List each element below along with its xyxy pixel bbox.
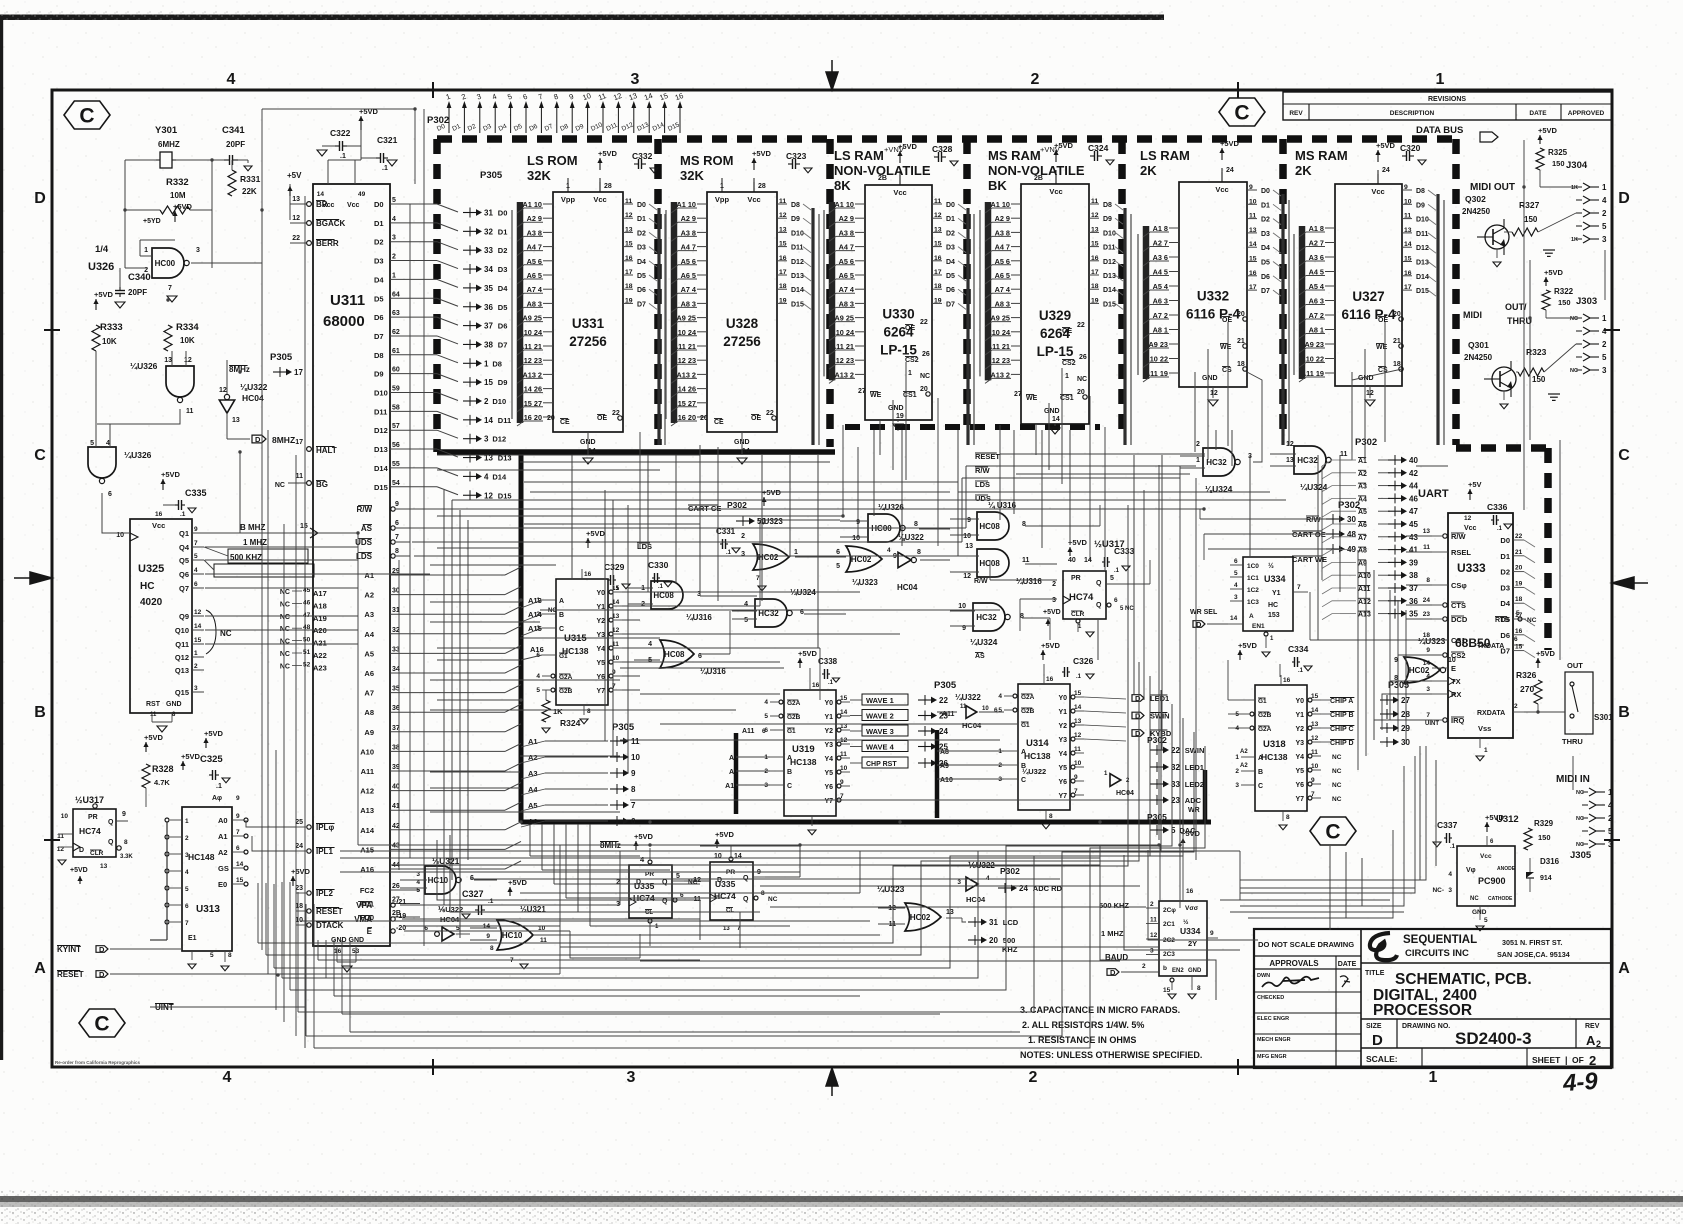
svg-text:HC00: HC00	[155, 259, 176, 268]
svg-text:43: 43	[1409, 533, 1418, 542]
svg-text:10M: 10M	[170, 191, 186, 200]
svg-text:9: 9	[1394, 657, 1398, 664]
svg-text:Vcc: Vcc	[1371, 187, 1384, 196]
svg-text:13: 13	[723, 926, 730, 932]
wire left mid vertical bundle	[443, 490, 445, 905]
data bus lane divider 4	[1118, 139, 1126, 430]
svg-text:2K: 2K	[1140, 163, 1157, 178]
svg-text:D11: D11	[374, 407, 387, 416]
svg-text:SAN JOSE,CA. 95134: SAN JOSE,CA. 95134	[1497, 950, 1570, 959]
svg-text:6: 6	[236, 845, 240, 852]
svg-text:9: 9	[236, 795, 240, 802]
svg-text:38: 38	[484, 340, 493, 349]
svg-text:8: 8	[1020, 613, 1024, 620]
svg-text:A8: A8	[364, 708, 374, 717]
ROM U331 address pins	[543, 203, 553, 205]
svg-text:A12: A12	[1358, 599, 1371, 606]
U315 right pins	[609, 590, 613, 594]
svg-text:20PF: 20PF	[226, 140, 245, 149]
svg-text:1K: 1K	[1571, 185, 1578, 191]
svg-text:LS ROM: LS ROM	[527, 153, 578, 168]
svg-text:C323: C323	[786, 151, 807, 161]
svg-text:9: 9	[395, 501, 399, 508]
wire staircases extra	[437, 840, 700, 940]
svg-text:EN2: EN2	[1172, 968, 1184, 974]
svg-text:.1: .1	[1114, 568, 1120, 574]
svg-text:2: 2	[741, 533, 745, 540]
data bus lane divider 1	[654, 139, 662, 445]
svg-text:.1: .1	[726, 550, 732, 556]
svg-text:10: 10	[963, 533, 971, 540]
svg-text:D8: D8	[492, 359, 502, 368]
svg-text:A2: A2	[1240, 749, 1248, 755]
svg-text:NC: NC	[920, 373, 930, 380]
U319 top/bottom pins	[809, 680, 811, 690]
svg-text:A5: A5	[364, 649, 374, 658]
svg-text:.1: .1	[488, 898, 494, 905]
U325 NC brace	[206, 610, 216, 654]
svg-text:2: 2	[484, 397, 489, 406]
svg-text:SEQUENTIAL: SEQUENTIAL	[1403, 934, 1477, 946]
svg-text:NC: NC	[280, 589, 290, 596]
svg-text:OE: OE	[905, 325, 915, 332]
svg-text:68000: 68000	[323, 313, 365, 330]
svg-text:2: 2	[1142, 963, 1146, 970]
svg-text:A10: A10	[940, 777, 953, 784]
svg-text:17: 17	[1404, 284, 1412, 291]
svg-text:40: 40	[1409, 456, 1418, 465]
svg-text:.1: .1	[658, 584, 664, 590]
svg-text:28: 28	[604, 183, 612, 190]
svg-text:4: 4	[1602, 327, 1607, 336]
svg-text:36: 36	[484, 303, 493, 312]
svg-text:20: 20	[989, 936, 998, 945]
svg-text:23: 23	[1423, 611, 1431, 618]
RAM U332 IC box	[1179, 182, 1247, 387]
address bus stub U319	[734, 733, 739, 814]
wire U325 outputs going right	[205, 532, 358, 534]
svg-text:Vcc: Vcc	[152, 521, 165, 530]
svg-text:D13: D13	[374, 445, 388, 454]
svg-text:3: 3	[616, 901, 620, 908]
svg-text:.1: .1	[382, 165, 388, 172]
svg-text:HC08: HC08	[979, 522, 1000, 531]
svg-text:WAVE 2: WAVE 2	[866, 712, 894, 721]
svg-text:HC138: HC138	[1024, 751, 1051, 761]
svg-text:11: 11	[631, 737, 640, 746]
svg-text:1K: 1K	[553, 707, 563, 716]
svg-text:C320: C320	[1400, 143, 1421, 153]
svg-text:BG: BG	[316, 480, 328, 489]
svg-text:D8: D8	[374, 351, 384, 360]
svg-text:NC: NC	[548, 608, 557, 614]
svg-text:D13: D13	[791, 273, 804, 280]
svg-text:B: B	[1258, 769, 1263, 776]
svg-text:17: 17	[934, 269, 942, 276]
U313 input pins	[170, 819, 182, 821]
svg-text:Y3: Y3	[1295, 740, 1304, 747]
data bus left vertical	[433, 139, 441, 452]
C marker bottom-right-mid	[1310, 817, 1356, 845]
svg-text:2: 2	[764, 768, 768, 775]
svg-text:CHECKED: CHECKED	[1257, 995, 1284, 1001]
svg-text:1: 1	[1065, 373, 1069, 380]
svg-text:22: 22	[1077, 322, 1085, 329]
svg-text:LP-15: LP-15	[880, 343, 917, 358]
svg-text:A10: A10	[1358, 573, 1371, 580]
svg-text:MIDI: MIDI	[1463, 310, 1482, 320]
svg-text:150: 150	[1532, 375, 1546, 384]
svg-text:12: 12	[693, 877, 701, 884]
svg-text:RX: RX	[1451, 690, 1461, 699]
svg-text:J304: J304	[1566, 160, 1588, 171]
svg-text:15: 15	[1091, 241, 1099, 248]
svg-text:D2: D2	[946, 230, 955, 237]
RAM U330 IC box	[865, 185, 932, 420]
svg-text:10: 10	[840, 765, 848, 772]
scan artifact: bottom noise band	[0, 1190, 1683, 1224]
U311 data pins right	[390, 203, 437, 205]
svg-text:D9: D9	[1103, 216, 1112, 223]
svg-text:Y6: Y6	[1058, 779, 1067, 786]
svg-text:62: 62	[392, 329, 400, 336]
svg-text:.1: .1	[216, 783, 222, 790]
svg-text:35: 35	[1409, 610, 1418, 619]
U311 top pins	[327, 160, 329, 184]
svg-text:9: 9	[122, 811, 126, 818]
svg-text:D12: D12	[791, 259, 804, 266]
svg-text:11: 11	[1074, 746, 1081, 753]
svg-text:A7: A7	[364, 689, 374, 698]
svg-text:OF: OF	[1572, 1055, 1584, 1065]
ROM U331 IC box	[553, 192, 623, 432]
svg-text:A18: A18	[313, 601, 327, 610]
svg-text:½: ½	[1183, 918, 1189, 926]
svg-text:CS1: CS1	[1451, 636, 1466, 645]
svg-text:3: 3	[194, 685, 198, 692]
svg-text:7: 7	[185, 920, 189, 927]
svg-text:CHIP C: CHIP C	[1330, 726, 1354, 733]
svg-text:C333: C333	[1114, 546, 1135, 556]
wire tx rx runs	[1390, 681, 1432, 720]
svg-text:R323: R323	[1526, 347, 1547, 357]
svg-text:+5VD: +5VD	[204, 729, 224, 738]
svg-text:+5VD: +5VD	[1238, 641, 1258, 650]
RAM U329 address riser band	[985, 202, 992, 380]
svg-text:49: 49	[358, 191, 366, 198]
svg-text:C: C	[1618, 447, 1630, 464]
wire bottom mid horizontals	[340, 850, 1240, 852]
svg-text:C: C	[1021, 777, 1026, 784]
svg-text:NC: NC	[1332, 768, 1342, 775]
svg-text:U313: U313	[196, 904, 220, 915]
svg-text:HC02: HC02	[758, 553, 779, 562]
svg-text:2: 2	[185, 835, 189, 842]
svg-text:15: 15	[840, 695, 848, 702]
svg-text:A2: A2	[218, 848, 228, 857]
svg-text:.1: .1	[828, 680, 834, 686]
svg-text:1C1: 1C1	[1247, 575, 1259, 582]
svg-text:12: 12	[1286, 441, 1294, 448]
svg-text:6: 6	[1514, 636, 1518, 643]
svg-text:3: 3	[1602, 235, 1607, 244]
svg-text:3: 3	[764, 782, 768, 789]
data bus right vertical	[1452, 139, 1460, 445]
svg-text:.1: .1	[180, 511, 186, 518]
svg-text:1: 1	[185, 818, 189, 825]
svg-text:4: 4	[1602, 196, 1607, 205]
svg-text:PC900: PC900	[1478, 876, 1506, 886]
svg-text:R327: R327	[1519, 200, 1540, 210]
svg-text:U328: U328	[726, 316, 759, 331]
svg-text:HALT: HALT	[316, 446, 337, 455]
RAM U329 IC box	[1021, 184, 1089, 424]
U319 power	[799, 658, 801, 668]
svg-text:8: 8	[914, 521, 918, 528]
CHP RST tag	[862, 757, 908, 768]
svg-text:5: 5	[185, 886, 189, 893]
ROM U328 address riser band	[671, 202, 678, 423]
svg-text:16: 16	[779, 255, 787, 262]
svg-text:55: 55	[392, 461, 400, 468]
svg-text:MIDI OUT: MIDI OUT	[1470, 182, 1515, 193]
svg-text:32K: 32K	[680, 168, 704, 183]
svg-text:6: 6	[395, 520, 399, 527]
svg-text:BERR: BERR	[316, 239, 339, 248]
svg-text:C338: C338	[818, 657, 838, 666]
svg-text:17: 17	[295, 439, 303, 446]
svg-text:Vpp: Vpp	[715, 195, 730, 204]
svg-text:Q: Q	[108, 819, 114, 826]
svg-text:IPL1: IPL1	[316, 847, 333, 856]
svg-text:P305: P305	[480, 170, 503, 181]
svg-text:AS: AS	[975, 653, 985, 660]
svg-text:11: 11	[1404, 213, 1411, 220]
U318 left pins	[1241, 699, 1255, 701]
svg-text:4: 4	[887, 547, 891, 554]
svg-text:D0: D0	[1261, 188, 1270, 195]
svg-text:G2B: G2B	[1258, 712, 1272, 719]
svg-text:20: 20	[547, 415, 555, 422]
svg-text:1 MHZ: 1 MHZ	[1101, 929, 1124, 938]
svg-text:A11: A11	[1358, 586, 1371, 593]
svg-text:13: 13	[1286, 457, 1294, 464]
svg-text:U319: U319	[792, 744, 815, 755]
svg-text:27: 27	[858, 388, 866, 395]
svg-text:4: 4	[1426, 673, 1430, 680]
svg-text:DATE: DATE	[1338, 961, 1357, 968]
svg-text:45: 45	[1409, 520, 1418, 529]
address bus stub U314	[935, 730, 940, 818]
svg-text:34: 34	[484, 265, 493, 274]
svg-text:CSφ: CSφ	[1451, 581, 1467, 590]
U318 right pins	[1308, 698, 1312, 702]
svg-text:7: 7	[1074, 788, 1078, 795]
wire right A-column feeds	[1389, 590, 1391, 720]
svg-text:A6: A6	[364, 669, 374, 678]
svg-text:NC: NC	[1576, 842, 1584, 848]
svg-text:NC: NC	[275, 482, 285, 489]
svg-text:9: 9	[486, 933, 490, 940]
svg-text:RESET: RESET	[316, 907, 343, 916]
svg-text:5: 5	[1234, 570, 1238, 577]
svg-text:A23: A23	[313, 663, 327, 672]
svg-text:DATE: DATE	[1529, 110, 1547, 117]
svg-text:EN1: EN1	[1252, 623, 1265, 630]
svg-text:NC-: NC-	[1432, 887, 1444, 894]
svg-text:20: 20	[1515, 565, 1523, 572]
U315 top/bottom pins	[581, 569, 583, 579]
address bus thick horizontal	[521, 820, 1211, 825]
svg-text:12: 12	[779, 212, 787, 219]
svg-text:13: 13	[1249, 227, 1257, 234]
svg-text:D1: D1	[637, 216, 646, 223]
svg-text:4: 4	[536, 673, 540, 680]
svg-text:Vcc: Vcc	[1215, 185, 1228, 194]
svg-text:2B: 2B	[1034, 175, 1043, 182]
svg-text:Y2: Y2	[1058, 723, 1067, 730]
wire right lower verticals	[1329, 846, 1331, 930]
svg-text:D1: D1	[1500, 552, 1510, 561]
ROM U328 data pins	[777, 203, 787, 205]
svg-text:D10: D10	[492, 397, 506, 406]
svg-text:GND: GND	[166, 701, 182, 708]
svg-text:19: 19	[896, 413, 904, 420]
svg-text:E: E	[367, 927, 373, 936]
svg-text:3: 3	[1426, 686, 1430, 693]
svg-text:D: D	[255, 435, 261, 444]
svg-text:5: 5	[1608, 827, 1613, 836]
svg-text:CATHODE: CATHODE	[1488, 896, 1513, 902]
data bus jog to uart	[1456, 444, 1548, 452]
wire mid vertical bundle right	[1143, 490, 1145, 700]
svg-text:D7: D7	[637, 301, 646, 308]
svg-text:D9: D9	[374, 370, 384, 379]
svg-text:WE: WE	[1220, 344, 1232, 351]
scan artifact: top edge dark strip	[0, 15, 1164, 21]
svg-text:D3: D3	[498, 265, 508, 274]
title block: size/drawing cells	[1396, 1019, 1398, 1048]
svg-text:+5VD: +5VD	[70, 867, 88, 874]
svg-text:¼U316: ¼U316	[686, 613, 712, 622]
svg-text:D: D	[99, 945, 105, 954]
svg-text:11: 11	[186, 408, 194, 415]
svg-text:1: 1	[794, 549, 798, 556]
svg-text:D14: D14	[374, 464, 389, 473]
wire verticals bottom connectors	[559, 845, 561, 935]
svg-text:12: 12	[1150, 932, 1158, 939]
svg-text:+5VD: +5VD	[173, 202, 193, 211]
svg-text:CS2: CS2	[905, 357, 919, 364]
svg-text:+5VD: +5VD	[1181, 829, 1201, 838]
svg-text:A21: A21	[313, 639, 327, 648]
svg-text:D5: D5	[498, 303, 508, 312]
svg-text:A9: A9	[729, 769, 738, 776]
svg-text:CE: CE	[714, 419, 724, 426]
svg-text:D14: D14	[1416, 274, 1429, 281]
svg-text:CHIP B: CHIP B	[1330, 712, 1354, 719]
svg-text:1: 1	[1235, 754, 1239, 761]
svg-text:C340: C340	[128, 272, 151, 283]
svg-text:R/W: R/W	[974, 578, 988, 585]
junction dots	[260, 208, 263, 211]
svg-text:11: 11	[840, 751, 847, 758]
svg-text:5: 5	[836, 563, 840, 570]
flip-flop U335 HC74 b	[710, 862, 753, 920]
svg-text:13: 13	[232, 417, 240, 424]
svg-text:16: 16	[1186, 888, 1194, 895]
svg-text:C330: C330	[648, 560, 669, 570]
svg-text:U318: U318	[1263, 739, 1286, 750]
+5VD to R334	[95, 299, 97, 310]
svg-text:D10: D10	[1103, 230, 1116, 237]
svg-text:LDS: LDS	[356, 552, 373, 561]
svg-text:A8: A8	[1358, 548, 1367, 555]
svg-text:2: 2	[1602, 340, 1607, 349]
svg-text:Q10: Q10	[175, 626, 189, 635]
svg-text:Vσσ: Vσσ	[1185, 905, 1199, 912]
svg-text:+5VD: +5VD	[586, 529, 606, 538]
svg-text:¼U323: ¼U323	[757, 517, 783, 526]
svg-text:A8: A8	[940, 749, 949, 756]
svg-text:D4: D4	[374, 275, 384, 284]
svg-text:19: 19	[1091, 297, 1099, 304]
svg-text:+5VD: +5VD	[798, 649, 818, 658]
svg-text:4: 4	[106, 440, 110, 447]
svg-text:APPROVALS: APPROVALS	[1269, 959, 1319, 968]
svg-text:4: 4	[744, 601, 748, 608]
svg-text:1C0: 1C0	[1247, 563, 1259, 570]
svg-text:U329: U329	[1039, 308, 1071, 323]
wire bottom left stubs	[257, 883, 259, 943]
svg-text:LP-15: LP-15	[1037, 344, 1074, 359]
svg-text:8: 8	[395, 548, 399, 555]
svg-text:D: D	[1196, 620, 1202, 629]
svg-text:A13: A13	[1358, 612, 1371, 619]
svg-text:1C3: 1C3	[1247, 599, 1259, 606]
svg-text:MS RAM: MS RAM	[988, 148, 1041, 163]
svg-text:Q6: Q6	[179, 570, 189, 579]
svg-text:26: 26	[922, 351, 930, 358]
svg-text:NC: NC	[1576, 816, 1584, 822]
svg-text:3. CAPACITANCE IN MICRO FARADS: 3. CAPACITANCE IN MICRO FARADS.	[1020, 1005, 1180, 1015]
svg-text:VPA: VPA	[356, 901, 372, 910]
svg-text:P302: P302	[427, 115, 449, 126]
wire uart data slants to bus	[1416, 465, 1448, 467]
svg-text:15: 15	[625, 241, 633, 248]
wire U313 input bus	[166, 822, 168, 940]
svg-text:12: 12	[1464, 515, 1472, 522]
wire U314 Y to led tags	[1084, 697, 1126, 699]
svg-text:D15: D15	[498, 491, 512, 500]
svg-text:R333: R333	[100, 322, 123, 333]
svg-text:E1: E1	[188, 935, 197, 942]
svg-text:11: 11	[1423, 544, 1430, 551]
svg-text:2: 2	[616, 879, 620, 886]
svg-text:D: D	[1618, 190, 1630, 207]
svg-text:2. ALL RESISTORS 1/4W. 5%: 2. ALL RESISTORS 1/4W. 5%	[1022, 1020, 1144, 1030]
wire U335 bottoms	[649, 934, 651, 946]
U315 left pins	[542, 599, 556, 601]
svg-text:9: 9	[1074, 774, 1078, 781]
svg-text:C341: C341	[222, 125, 245, 136]
svg-text:5: 5	[1484, 917, 1488, 924]
+5VD near IPL2	[292, 876, 294, 886]
svg-text:½U317: ½U317	[75, 795, 104, 805]
svg-text:G2B: G2B	[1021, 708, 1035, 715]
svg-text:6: 6	[762, 728, 766, 735]
svg-text:Vφ: Vφ	[1466, 867, 1476, 874]
